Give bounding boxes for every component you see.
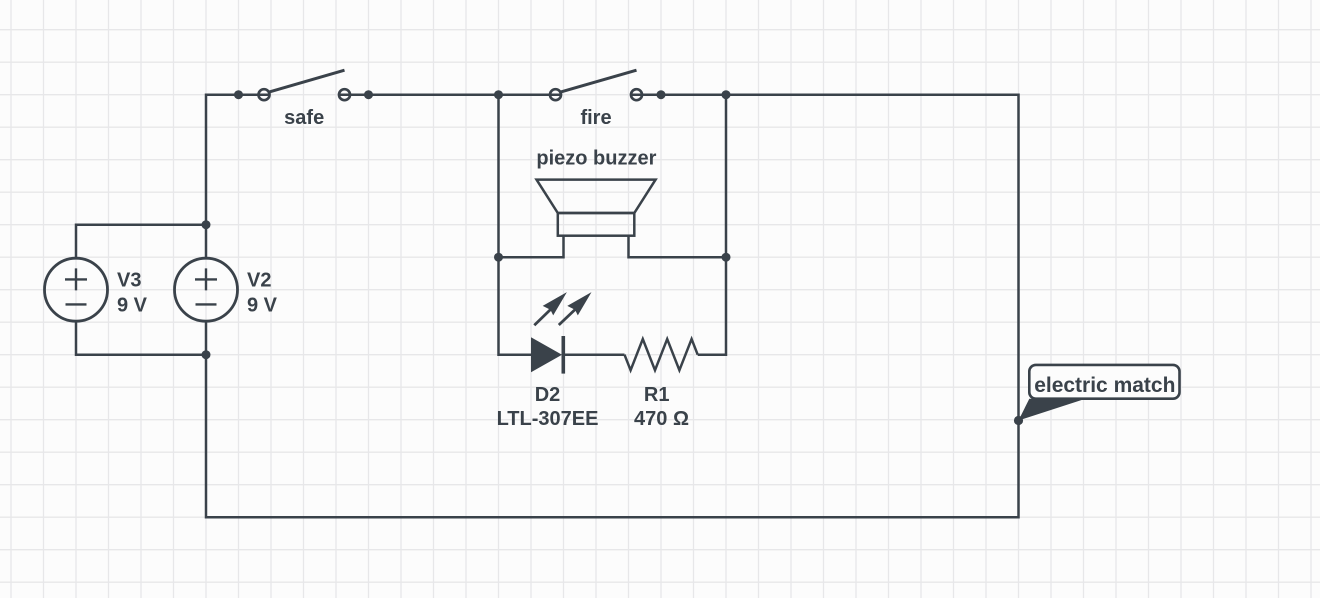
svg-text:V2: V2 (247, 269, 271, 291)
svg-text:safe: safe (284, 107, 324, 129)
svg-text:LTL-307EE: LTL-307EE (497, 408, 599, 430)
svg-text:D2: D2 (535, 384, 561, 406)
svg-text:piezo buzzer: piezo buzzer (536, 148, 656, 170)
svg-text:R1: R1 (644, 384, 670, 406)
svg-text:V3: V3 (117, 269, 141, 291)
svg-text:470 Ω: 470 Ω (634, 408, 689, 430)
svg-text:9 V: 9 V (117, 295, 148, 317)
svg-text:electric match: electric match (1034, 374, 1175, 397)
svg-text:fire: fire (580, 107, 611, 129)
svg-text:9 V: 9 V (247, 295, 278, 317)
